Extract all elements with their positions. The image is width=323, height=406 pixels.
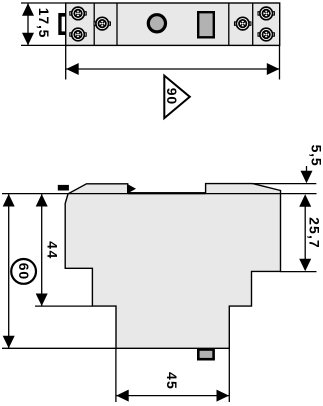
dim 45: left arrowhead	[116, 390, 129, 402]
dim 90: left arrowhead	[66, 63, 79, 75]
side view: DIN-rail clip (black)	[58, 185, 69, 191]
top view: device body outline	[66, 3, 280, 45]
top view: terminal divider line 3	[228, 3, 230, 45]
top view: terminal screw S4	[235, 17, 251, 30]
side view: step extension line (44)	[35, 305, 92, 307]
svg-text:44: 44	[45, 241, 61, 260]
side view: device body profile	[65, 184, 280, 349]
svg-text:17,5: 17,5	[36, 8, 52, 38]
dim 17,5: bottom extension line	[21, 44, 66, 46]
dim 17,5: top extension line	[21, 2, 66, 4]
dim 60: lower arrowhead	[3, 336, 15, 349]
top view: terminal screw S3	[94, 17, 110, 30]
top view: terminal screw S2	[70, 28, 86, 41]
dim 44: dimension line	[41, 194, 43, 306]
svg-text:25,7: 25,7	[307, 217, 323, 249]
top view: terminal divider line 2	[116, 3, 118, 45]
side view: tab top extension line (5,5)	[252, 183, 316, 185]
side view: bottom terminal tab	[198, 350, 213, 360]
top view: terminal screw S1	[70, 7, 86, 20]
dim 90: right arrowhead	[267, 63, 280, 75]
side view: right step extension line (25,7)	[281, 271, 317, 273]
svg-text:5,5: 5,5	[309, 145, 323, 167]
dim 17,5: dimension line	[27, 4, 29, 45]
dim 5,5: arrowhead	[301, 171, 313, 184]
dim 90: triangle marker	[164, 76, 190, 119]
dim 44: lower arrowhead	[36, 294, 48, 307]
dim 90: left extension line	[65, 45, 67, 79]
top view: terminal divider line 4	[252, 3, 254, 45]
dim 45: left extension line	[115, 348, 117, 402]
dim 25,7: dimension line	[304, 205, 306, 260]
dim 44: upper arrowhead	[36, 194, 48, 207]
top view: DIN-rail clip bracket	[58, 13, 65, 35]
svg-text:45: 45	[164, 372, 180, 390]
svg-text:90: 90	[164, 88, 180, 105]
dim 25,7: lower arrowhead	[299, 259, 311, 272]
dim 5,5: leader line	[306, 166, 308, 173]
dim 45: dimension line	[116, 395, 229, 397]
dim 25,7: upper arrowhead	[299, 194, 311, 207]
side view: clip hook triangle	[128, 184, 136, 193]
dim 17,5: lower arrowhead	[22, 33, 34, 46]
dim 45: right extension line	[228, 348, 230, 402]
dim 60: upper arrowhead	[3, 194, 15, 207]
svg-text:60: 60	[16, 263, 32, 280]
dim 60: dimension line	[8, 194, 10, 348]
side view: bottom extension line (60)	[2, 347, 116, 349]
top view: terminal divider line 1	[93, 3, 95, 45]
dim 60: circle marker	[11, 259, 36, 284]
top view: terminal screw S6	[258, 28, 274, 41]
top view: indicator window	[198, 12, 214, 37]
side view: rail plane reference line	[2, 193, 317, 195]
top view: terminal screw S5	[258, 7, 274, 20]
dim 45: right arrowhead	[217, 390, 230, 402]
top view: round knob	[148, 15, 165, 32]
dim 17,5: upper arrowhead	[22, 3, 34, 16]
dim 90: right extension line	[279, 45, 281, 79]
side view: recess top edge (thick)	[128, 192, 206, 194]
dim 90: dimension line	[66, 68, 280, 70]
